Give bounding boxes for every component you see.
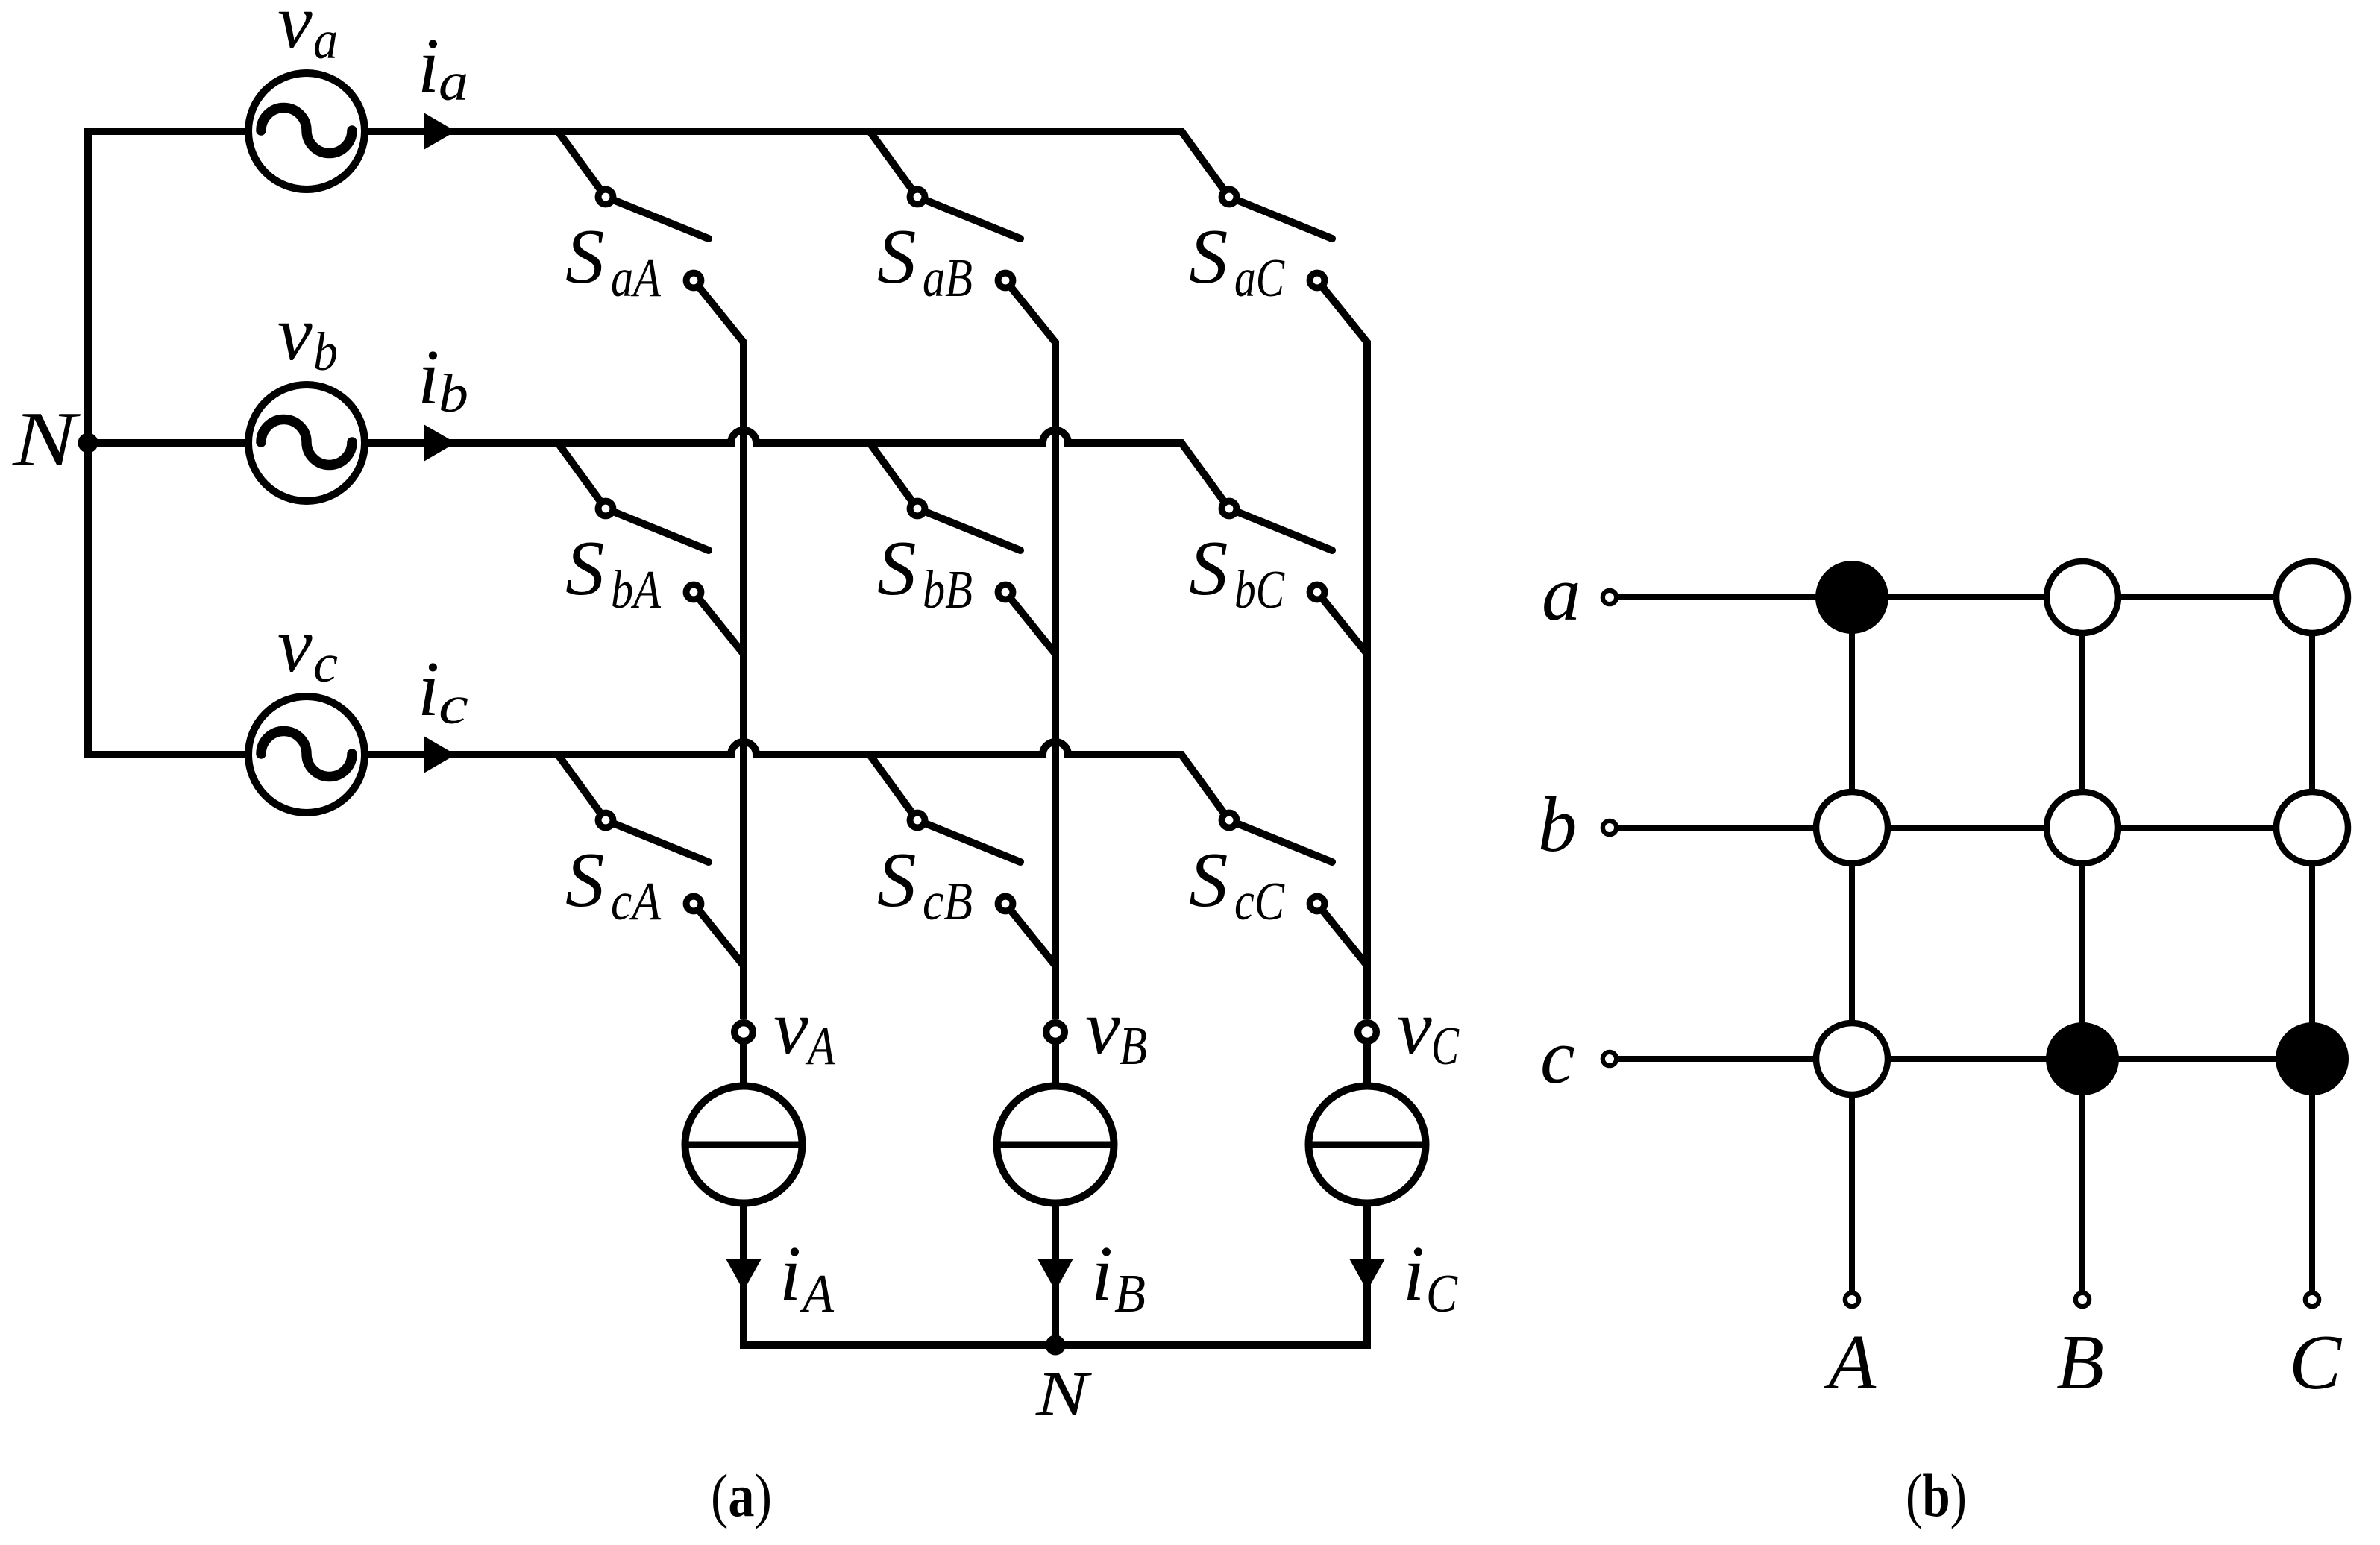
svg-text:b: b — [313, 321, 338, 382]
svg-text:S: S — [1189, 836, 1228, 923]
(b) node bC: switch state open — [2276, 792, 2348, 863]
switch SaC (connects input a to output C) — [1222, 189, 1367, 357]
svg-text:aC: aC — [1234, 248, 1285, 308]
svg-text:v: v — [773, 984, 808, 1071]
svg-text:(b): (b) — [1906, 1461, 1967, 1529]
(b) wire: output line C — [2309, 597, 2315, 1291]
current source load iB (output phase B) — [997, 1086, 1114, 1203]
svg-text:bC: bC — [1234, 559, 1285, 620]
(b) wire: input line c — [1616, 1056, 2312, 1062]
svg-text:C: C — [1426, 1263, 1458, 1324]
current source load iA (output phase A) — [685, 1086, 803, 1203]
(b) terminal: output B — [2076, 1293, 2089, 1306]
svg-text:aA: aA — [611, 248, 661, 308]
arrow: output current iC direction — [1349, 1259, 1385, 1291]
svg-text:v: v — [277, 0, 313, 65]
arrow: input current ia direction — [424, 113, 456, 150]
switch SbA (connects input b to output A) — [558, 443, 744, 669]
svg-text:B: B — [1114, 1263, 1146, 1324]
(b) node bB: switch state open — [2047, 792, 2118, 863]
(b) node cC: switch state closed (filled) — [2276, 1022, 2349, 1095]
svg-text:S: S — [877, 836, 917, 923]
svg-text:a: a — [1542, 550, 1581, 637]
(b) wire: input line a — [1616, 594, 2312, 600]
svg-text:a: a — [439, 51, 468, 112]
svg-text:v: v — [277, 601, 313, 688]
terminal node vA (output phase A) — [735, 1023, 753, 1042]
svg-text:S: S — [1189, 213, 1228, 300]
svg-text:b: b — [439, 363, 468, 424]
(b) node aC: switch state open — [2276, 561, 2348, 633]
svg-text:A: A — [800, 1263, 834, 1324]
terminal node vC (output phase C) — [1358, 1023, 1377, 1042]
arrow: input current ib direction — [424, 424, 456, 462]
svg-text:cB: cB — [923, 871, 973, 931]
wire: output column B lower link — [1052, 1203, 1059, 1345]
(b) wire: output line A — [1849, 597, 1855, 1291]
wire: input phase b bus (row b, hops over output columns A and B) — [88, 430, 1229, 509]
(b) node cB: switch state closed (filled) — [2046, 1022, 2119, 1095]
wire: output neutral bus (bottom, joins output columns) — [744, 1203, 1367, 1345]
svg-text:(a): (a) — [711, 1461, 772, 1529]
arrow: input current ic direction — [424, 736, 456, 773]
wire: left input neutral bus — [88, 131, 248, 755]
svg-text:c: c — [1540, 1013, 1575, 1100]
switch SbC (connects input b to output C) — [1222, 501, 1367, 669]
(b) node aB: switch state open — [2047, 561, 2118, 633]
switch ScA (connects input c to output A) — [558, 755, 744, 981]
svg-text:C: C — [1431, 1016, 1460, 1076]
svg-text:N: N — [1035, 1359, 1092, 1429]
svg-text:S: S — [1189, 524, 1228, 611]
svg-text:v: v — [277, 289, 313, 377]
wire: input phase c bus (row c, hops over output columns A and B) — [365, 742, 1229, 820]
switch ScB (connects input c to output B) — [870, 755, 1055, 981]
terminal node vB (output phase B) — [1046, 1023, 1065, 1042]
svg-text:S: S — [565, 213, 605, 300]
(b) node bA: switch state open — [1816, 792, 1888, 863]
(b) node aA: switch state closed (filled) — [1815, 561, 1888, 634]
switch SaA (connects input a to output A) — [558, 131, 744, 357]
svg-text:i: i — [418, 22, 439, 109]
(b) terminal: input b — [1603, 821, 1616, 834]
svg-text:cA: cA — [611, 871, 661, 931]
svg-text:v: v — [1085, 984, 1120, 1071]
svg-text:C: C — [2289, 1318, 2343, 1406]
(b) node cA: switch state open — [1816, 1023, 1888, 1095]
current source load iC (output phase C) — [1309, 1086, 1426, 1203]
wire: output column A — [740, 342, 747, 1086]
wire: output column B — [1052, 342, 1059, 1086]
svg-text:aB: aB — [923, 248, 973, 308]
wire: input phase a bus (row a) — [365, 131, 1229, 197]
svg-text:S: S — [877, 524, 917, 611]
svg-text:i: i — [779, 1230, 801, 1317]
svg-text:c: c — [439, 675, 468, 735]
svg-text:N: N — [12, 395, 81, 482]
(b) wire: input line b — [1616, 825, 2312, 831]
node N (output neutral junction) — [1046, 1335, 1066, 1356]
svg-text:S: S — [565, 836, 605, 923]
svg-text:B: B — [1120, 1016, 1147, 1076]
svg-text:A: A — [1824, 1318, 1877, 1406]
switch SaB (connects input a to output B) — [870, 131, 1055, 357]
(b) terminal: input c — [1603, 1052, 1616, 1066]
svg-text:bA: bA — [611, 559, 661, 620]
(b) terminal: output A — [1845, 1293, 1859, 1306]
wire: output column C — [1363, 342, 1371, 1086]
svg-text:i: i — [1403, 1230, 1425, 1317]
svg-text:cC: cC — [1234, 871, 1285, 931]
svg-text:b: b — [1538, 781, 1577, 868]
svg-text:bB: bB — [923, 559, 973, 620]
voltage source vc (AC source, input phase c) — [248, 696, 365, 813]
switch SbB (connects input b to output B) — [870, 443, 1055, 669]
switch ScC (connects input c to output C) — [1222, 813, 1367, 981]
voltage source va (AC source, input phase a) — [248, 73, 365, 189]
svg-text:v: v — [1397, 984, 1432, 1071]
svg-text:S: S — [877, 213, 917, 300]
svg-text:i: i — [418, 333, 439, 421]
svg-text:B: B — [2056, 1318, 2104, 1406]
svg-text:A: A — [806, 1016, 836, 1076]
arrow: output current iB direction — [1037, 1259, 1073, 1291]
svg-text:i: i — [1091, 1230, 1113, 1317]
(b) wire: output line B — [2079, 597, 2085, 1291]
arrow: output current iA direction — [726, 1259, 762, 1291]
voltage source vb (AC source, input phase b) — [248, 385, 365, 501]
svg-text:i: i — [418, 645, 439, 732]
svg-text:a: a — [313, 10, 338, 70]
(b) terminal: output C — [2305, 1293, 2319, 1306]
svg-text:S: S — [565, 524, 605, 611]
node N (input neutral junction) — [78, 433, 98, 453]
svg-text:c: c — [313, 633, 338, 693]
(b) terminal: input a — [1603, 591, 1616, 604]
